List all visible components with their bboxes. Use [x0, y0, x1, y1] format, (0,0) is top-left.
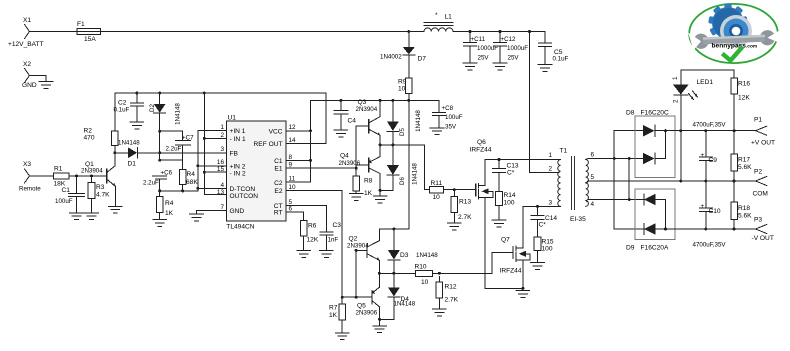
svg-text:LED1: LED1 [697, 79, 714, 86]
svg-text:+12V_BATT: +12V_BATT [8, 41, 44, 48]
svg-text:D-TCON: D-TCON [230, 186, 256, 193]
wire D4 to Q5 collector [380, 318, 394, 320]
resistor R12 [436, 277, 459, 309]
capacitor C4 [334, 100, 356, 129]
svg-text:Remote: Remote [19, 186, 41, 193]
capacitor C2 [114, 93, 144, 122]
svg-text:OUTCON: OUTCON [230, 193, 259, 200]
wire T1 pin6 to rectifier input [588, 158, 643, 160]
svg-text:D6: D6 [399, 176, 406, 184]
ground C5 [538, 65, 552, 72]
inductor L1 [424, 12, 453, 32]
ground C4 [334, 130, 348, 137]
svg-text:1N4148: 1N4148 [175, 103, 182, 125]
diode D5 [387, 100, 406, 144]
ground C11 [463, 63, 477, 70]
resistor R17 [731, 131, 752, 181]
node junction C1 tap [75, 174, 78, 177]
svg-text:bennypass.com: bennypass.com [712, 43, 758, 50]
resistor R6 [300, 221, 318, 251]
node D2 bus crosses FB line [158, 151, 161, 154]
svg-text:REF OUT: REF OUT [254, 141, 283, 148]
T1 core [571, 157, 573, 210]
node pin4 bus B junction [628, 198, 631, 201]
svg-text:E1: E1 [274, 166, 282, 173]
wire driver output to R11 [380, 145, 429, 190]
node pin4 on bus [196, 187, 199, 190]
svg-text:68K: 68K [186, 179, 198, 186]
wire pin9 E1 to Q3/Q4 base bus [293, 167, 356, 169]
capacitor C12 [494, 32, 529, 63]
node C6/R4 top node [158, 159, 161, 162]
svg-text:GND: GND [230, 208, 245, 215]
node C12 tap [499, 30, 502, 33]
wire bus A to D8 top diode [614, 130, 643, 132]
node D3/D4 junction [392, 272, 395, 275]
resistor R14 [496, 191, 516, 220]
svg-text:P2: P2 [754, 169, 762, 176]
wire pin5 CT to C3 [293, 205, 327, 231]
svg-text:F1: F1 [77, 21, 85, 28]
svg-text:1nF: 1nF [328, 237, 339, 244]
wire pin15 stub [204, 171, 219, 173]
wire R1 to Q1 base [69, 175, 107, 177]
svg-text:C*: C* [507, 170, 515, 177]
svg-text:6: 6 [591, 152, 595, 159]
svg-text:2: 2 [220, 132, 224, 139]
node LED bus on COM [679, 180, 682, 183]
node R7 tap [341, 296, 344, 299]
capacitor C13 [492, 160, 519, 192]
rectifier D8 box F16C20C [626, 110, 675, 178]
resistor R2 [84, 93, 119, 153]
svg-text:R8: R8 [364, 178, 373, 185]
node D8 output junction [664, 129, 667, 132]
node C11 tap [469, 30, 472, 33]
diode D1 [115, 147, 138, 167]
diode D4 [388, 273, 409, 319]
svg-text:IRFZ44: IRFZ44 [500, 268, 522, 275]
svg-text:Q6: Q6 [477, 139, 486, 146]
transistor Q7 IRFZ44 (MOSFET) [500, 206, 531, 288]
wire T1 pin4 to D9 top diode [588, 199, 644, 201]
wire to Q7 gate [439, 253, 513, 274]
rectifier D9 box F16C20A [626, 189, 675, 252]
wire pin1 branch to bottom node [198, 131, 220, 191]
ground C1 [70, 213, 84, 220]
svg-text:D9: D9 [626, 245, 635, 252]
svg-text:4: 4 [591, 201, 595, 208]
svg-text:100: 100 [504, 200, 515, 207]
node pin8 on VCC bus [309, 159, 312, 162]
diode D9b (bottom, F16C20A) [644, 223, 666, 234]
ground Q5/D4 [373, 319, 387, 332]
wire X3 to R1 [30, 175, 54, 177]
svg-text:R14: R14 [504, 192, 516, 199]
svg-text:+: + [701, 203, 705, 210]
transistor Q2 [347, 229, 379, 273]
connector P2 [753, 169, 768, 198]
svg-text:10: 10 [421, 279, 429, 286]
svg-text:F16C20A: F16C20A [641, 245, 669, 252]
node D3 top tap [392, 227, 395, 230]
svg-text:12K: 12K [738, 95, 750, 102]
svg-text:4700uF,35V: 4700uF,35V [693, 242, 727, 249]
ground U1 pin7 [190, 214, 204, 221]
svg-text:+IN 1: +IN 1 [230, 128, 246, 135]
resistor R11 [429, 180, 443, 201]
svg-text:R4: R4 [187, 171, 196, 178]
node junction R3 tap [90, 174, 93, 177]
wire +V rail [655, 130, 756, 132]
node C9 top [704, 129, 707, 132]
svg-text:3: 3 [548, 200, 552, 207]
svg-text:R18: R18 [738, 205, 750, 212]
svg-text:-V OUT: -V OUT [752, 235, 774, 242]
node Q3 collector tap [379, 99, 382, 102]
node pin15 on bus [203, 171, 206, 174]
node Q2/Q5 emitter junction [378, 272, 381, 275]
svg-text:R13: R13 [459, 199, 471, 206]
wire D6/Q4 collector to ground [380, 189, 393, 191]
svg-text:X3: X3 [23, 161, 31, 168]
capacitor C9 [699, 131, 717, 181]
svg-text:100uF: 100uF [445, 114, 463, 121]
wire D1 to FB pin3 [137, 152, 219, 154]
node pin12 on VCC bus [309, 129, 312, 132]
svg-text:2.2uF: 2.2uF [166, 146, 182, 153]
svg-text:1: 1 [548, 152, 552, 159]
node R9 / drop bus tap [407, 99, 410, 102]
node D2 tap on REF rail [158, 92, 161, 95]
svg-text:1K: 1K [329, 312, 338, 319]
svg-text:10: 10 [398, 86, 406, 93]
svg-text:R3: R3 [96, 184, 105, 191]
svg-text:D5: D5 [399, 127, 406, 135]
svg-text:R17: R17 [738, 157, 750, 164]
resistor R9 [398, 78, 412, 100]
transistor Q5 [356, 273, 380, 319]
svg-text:C9: C9 [709, 157, 718, 164]
node pin16 on bus [196, 164, 199, 167]
node pin6 bus A tap [613, 157, 616, 160]
wire rectifier bus B [628, 159, 630, 200]
svg-text:VCC: VCC [269, 128, 283, 135]
transistor Q6 IRFZ44 (MOSFET) [470, 139, 493, 288]
diode D7 [380, 32, 426, 79]
wire Q2/Q5 base node line [342, 296, 367, 298]
node R13 tap [453, 188, 456, 191]
node R4 bottom [181, 189, 184, 192]
wire pin7 GND stub [197, 211, 220, 214]
node pin2 bus tap on REF rail [203, 92, 206, 95]
svg-text:FB: FB [230, 150, 239, 157]
svg-text:L1: L1 [445, 14, 453, 21]
svg-text:R15: R15 [542, 239, 554, 246]
svg-text:6: 6 [289, 206, 293, 213]
capacitor C1 [55, 176, 85, 213]
wire Q2 base bus [355, 250, 357, 297]
svg-text:C4: C4 [348, 118, 357, 125]
node C6 bottom [158, 189, 161, 192]
op-amp/PWM IC U1 TL494CN box [226, 115, 285, 231]
resistor R15 [534, 237, 554, 262]
svg-text:R2: R2 [84, 128, 93, 135]
svg-text:2N3904: 2N3904 [347, 242, 369, 249]
wire C6-R4 top link [160, 160, 183, 169]
svg-text:4: 4 [220, 182, 224, 189]
diode D2 [149, 93, 166, 160]
ground R12 [433, 309, 447, 316]
svg-text:12: 12 [289, 124, 297, 131]
svg-text:11: 11 [289, 176, 296, 183]
wire L1 to C5 corner (+12V rail right) [453, 31, 545, 33]
wire Q6 drain node line to T1 pin1 [485, 159, 557, 161]
svg-text:2.7K: 2.7K [458, 214, 472, 221]
svg-text:Q3: Q3 [358, 99, 367, 106]
capacitor C6 [143, 170, 173, 191]
svg-text:D8: D8 [626, 110, 635, 117]
svg-text:7: 7 [220, 204, 224, 211]
wire VCC rail y=100.4 [311, 99, 440, 101]
U1 pin stubs right [286, 131, 293, 212]
transistor Q1 [81, 153, 115, 206]
wire R10 to Q7 gate corner [432, 272, 439, 274]
wire pin11 C2 stub [293, 181, 311, 183]
resistor R3 [88, 176, 110, 213]
capacitor C11 [464, 32, 499, 63]
svg-text:F16C20C: F16C20C [641, 110, 669, 117]
capacitor C10 [699, 181, 721, 229]
node C2 tap on REF rail [135, 92, 138, 95]
node Q5 collector/D4 [378, 318, 381, 321]
svg-text:TL494CN: TL494CN [226, 224, 254, 231]
svg-text:C1: C1 [274, 158, 283, 165]
ground R13 [448, 223, 462, 230]
svg-text:EI-35: EI-35 [570, 216, 586, 223]
transistor Q3 [356, 99, 381, 145]
wire X1 to fuse [30, 31, 77, 33]
transformer T1 [548, 148, 594, 224]
resistor R1 [54, 166, 70, 188]
svg-text:D1: D1 [128, 161, 137, 168]
fuse F1 [77, 21, 101, 43]
svg-text:P1: P1 [754, 117, 762, 124]
node D7 tap on +12V rail [407, 30, 410, 33]
wire rectifier bus A [613, 131, 615, 229]
resistor R16 [731, 70, 751, 131]
ground X2 [39, 76, 53, 89]
svg-text:C13: C13 [507, 163, 519, 170]
diode D8a (top, F16C20C) [643, 125, 666, 136]
node R12 tap [438, 272, 441, 275]
svg-text:1N4148: 1N4148 [118, 140, 140, 147]
node D5 tap [391, 99, 394, 102]
svg-text:4700uF,35V: 4700uF,35V [693, 122, 727, 129]
svg-text:2.7K: 2.7K [445, 297, 459, 304]
svg-text:R12: R12 [445, 284, 457, 291]
svg-text:2N3906: 2N3906 [356, 310, 378, 317]
svg-text:1000uF: 1000uF [507, 45, 528, 52]
svg-text:R11: R11 [431, 180, 443, 187]
node pin6 bus B tap [628, 157, 631, 160]
svg-text:2: 2 [673, 99, 680, 103]
svg-text:- IN 2: - IN 2 [230, 170, 246, 177]
wire Q3/Q4 base bus x=356.2 [355, 126, 357, 176]
transistor Q4 [339, 145, 381, 191]
svg-text:5.6K: 5.6K [738, 164, 752, 171]
svg-text:+IN 2: +IN 2 [230, 163, 246, 170]
node Q1 collector / D1 anode [113, 151, 116, 154]
capacitor C7 [166, 135, 195, 161]
svg-text:R7: R7 [329, 305, 338, 312]
svg-text:2N3906: 2N3906 [339, 160, 361, 167]
svg-text:16: 16 [217, 159, 225, 166]
svg-text:- IN 1: - IN 1 [230, 136, 246, 143]
svg-text:4.7K: 4.7K [96, 192, 110, 199]
svg-text:1K: 1K [364, 190, 373, 197]
svg-text:25V: 25V [478, 55, 490, 62]
svg-text:R6: R6 [308, 223, 317, 230]
connector X1 [23, 17, 31, 39]
capacitor C14 [531, 206, 558, 237]
svg-text:13: 13 [217, 189, 225, 196]
svg-text:C2: C2 [118, 100, 127, 107]
svg-text:0.1uF: 0.1uF [114, 107, 130, 114]
wire pin4 stub to bus [198, 187, 220, 189]
resistor R7 [329, 297, 346, 332]
svg-text:C2: C2 [274, 180, 283, 187]
svg-text:R10: R10 [415, 264, 427, 271]
ground R6 [297, 251, 311, 258]
svg-text:+C8: +C8 [442, 105, 454, 112]
node D2 bus / C7 top tap [158, 130, 161, 133]
LED LED1 [672, 70, 713, 131]
svg-text:1: 1 [672, 76, 679, 80]
ground C3 [320, 251, 334, 258]
node C10 bottom [704, 228, 707, 231]
wire REF rail (pin14 reference rail) [115, 92, 326, 94]
ground R7 [335, 333, 349, 340]
wire pin16 stub to bus [198, 165, 220, 167]
svg-text:C3: C3 [333, 222, 342, 229]
svg-text:2: 2 [548, 166, 552, 173]
svg-text:3: 3 [220, 146, 224, 153]
svg-text:9: 9 [289, 162, 293, 169]
node Q3/Q4 emitter junction [379, 143, 382, 146]
ground Q4/D6 [373, 190, 387, 203]
node source ground junction [521, 287, 524, 290]
svg-text:+V OUT: +V OUT [751, 140, 775, 147]
svg-text:P3: P3 [754, 217, 762, 224]
logo wrench [688, 29, 780, 51]
svg-text:+C12: +C12 [501, 36, 517, 43]
node R16 on +V rail [733, 129, 736, 132]
svg-text:C10: C10 [709, 208, 721, 215]
node pin9/base bus [355, 167, 358, 170]
svg-text:2.2uF: 2.2uF [143, 180, 159, 187]
svg-text:15: 15 [217, 166, 225, 173]
svg-text:100uF: 100uF [55, 198, 73, 205]
node C14 tap [536, 205, 539, 208]
ground R14 [492, 220, 506, 227]
svg-text:Q7: Q7 [501, 237, 510, 244]
svg-text:C*: C* [539, 222, 547, 229]
svg-text:12K: 12K [307, 237, 319, 244]
wire R11 to Q6 gate [443, 189, 475, 191]
svg-text:+C6: +C6 [161, 170, 173, 177]
svg-text:25V: 25V [508, 55, 520, 62]
svg-text:Q5: Q5 [357, 303, 366, 310]
connector X2 [23, 61, 31, 83]
diode D6 [387, 145, 406, 191]
ground C2 [130, 122, 144, 129]
wire VCC bus x=310.5 [310, 100, 312, 182]
svg-text:E2: E2 [274, 188, 282, 195]
svg-text:X1: X1 [23, 17, 31, 24]
svg-text:8: 8 [289, 154, 293, 161]
svg-text:14: 14 [289, 137, 297, 144]
resistor R18 [731, 181, 752, 229]
svg-text:R16: R16 [738, 81, 750, 88]
wire -V rail [656, 228, 756, 230]
svg-text:RT: RT [274, 210, 283, 217]
wire emitters to R10 [379, 272, 415, 274]
connector P1 [751, 117, 775, 147]
svg-text:2N3904: 2N3904 [356, 106, 378, 113]
capacitor C5 [539, 32, 569, 65]
wire pin8 C1 stub [293, 159, 311, 161]
node R18 bottom [733, 228, 736, 231]
node C4 tap [339, 99, 342, 102]
wire bus A to D9 bottom diode [614, 228, 643, 230]
svg-text:IRFZ44: IRFZ44 [470, 147, 492, 154]
connector P3 [752, 217, 774, 243]
svg-text:15A: 15A [84, 36, 96, 43]
svg-text:470: 470 [84, 135, 95, 142]
node D9 output junction [664, 228, 667, 231]
svg-text:T1: T1 [560, 148, 568, 155]
svg-text:1N4002: 1N4002 [380, 54, 402, 61]
wire fuse to L1 (+12V rail) [100, 31, 424, 33]
wire T1 pin5 to COM rail [588, 180, 756, 182]
svg-text:D7: D7 [418, 56, 427, 63]
svg-text:0.1uF: 0.1uF [553, 56, 569, 63]
wire D9 anode join to -V rail [665, 200, 667, 230]
ground R4 1K [153, 220, 167, 227]
connector X3 [23, 161, 31, 183]
svg-text:R1: R1 [54, 166, 63, 173]
svg-text:1N4148: 1N4148 [412, 163, 419, 185]
svg-text:100: 100 [542, 246, 553, 253]
wire D8 cathode join to +V rail [665, 131, 667, 159]
wire +12V drop to T1 pin2 [530, 32, 557, 173]
wire T1 pin3 line to Q7 drain [523, 205, 557, 207]
wire LED/R16 top rail [681, 69, 734, 71]
wire pin12 VCC stub [293, 130, 311, 132]
svg-text:1K: 1K [165, 210, 174, 217]
node R17 bottom [733, 180, 736, 183]
capacitor C8 [433, 100, 463, 130]
svg-text:+: + [701, 152, 705, 159]
svg-text:2N3904: 2N3904 [81, 167, 103, 174]
svg-text:*: * [435, 12, 438, 19]
U1 pin stubs left [219, 131, 226, 211]
diode D9a (top, F16C20A) [644, 194, 666, 205]
wire pin10 E2 stub [293, 190, 342, 297]
svg-text:X2: X2 [23, 61, 31, 68]
svg-text:35V: 35V [445, 124, 457, 131]
